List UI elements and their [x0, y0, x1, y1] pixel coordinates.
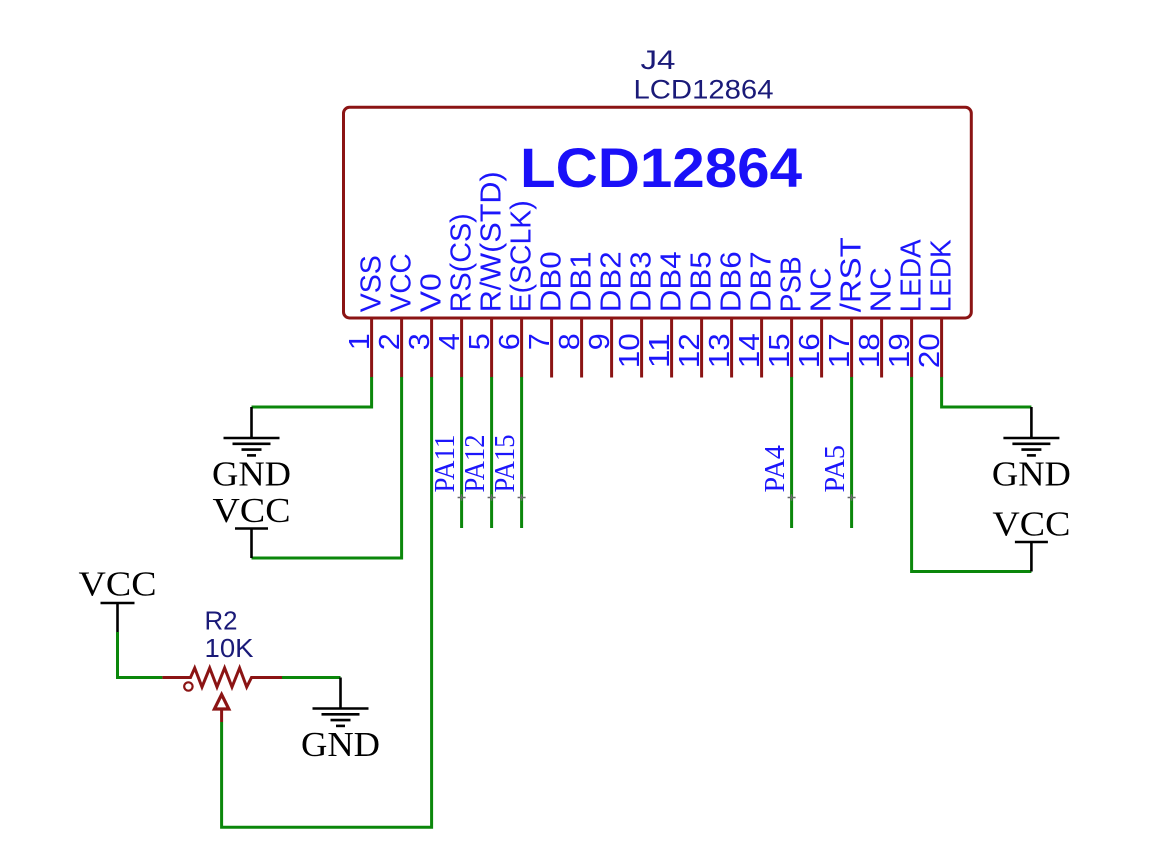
svg-text:17: 17	[824, 333, 856, 368]
svg-text:DB2: DB2	[596, 251, 628, 312]
pin 16 NC stub	[820, 318, 823, 378]
pin 5 R/W(STD) stub	[490, 318, 493, 378]
svg-text:PA15: PA15	[489, 435, 521, 493]
wire pin4 net PA11	[460, 377, 463, 528]
pin 2 VCC stub	[400, 318, 403, 378]
svg-text:PSB: PSB	[776, 256, 808, 312]
svg-text:DB6: DB6	[716, 251, 748, 312]
svg-text:VSS: VSS	[356, 255, 388, 312]
svg-text:DB5: DB5	[686, 251, 718, 312]
svg-text:11: 11	[644, 333, 676, 368]
wire VCC to R2 pin 1	[118, 632, 163, 678]
svg-text:R2: R2	[205, 606, 238, 636]
connector J4 body	[344, 107, 972, 318]
pin 9 DB2 stub	[610, 318, 613, 378]
wire pin17 net PA5	[850, 377, 853, 528]
svg-text:13: 13	[704, 333, 736, 368]
pin 7 DB0 stub	[550, 318, 553, 378]
svg-text:NC: NC	[866, 267, 898, 312]
R2 wiper arrow	[214, 695, 228, 710]
pin 15 PSB stub	[790, 318, 793, 378]
pin 17 /RST stub	[850, 318, 853, 378]
svg-text:PA5: PA5	[819, 445, 851, 493]
wire pin20 LEDK to GND	[942, 377, 1032, 407]
svg-text:VCC: VCC	[79, 565, 157, 604]
svg-text:PA11: PA11	[429, 435, 461, 493]
svg-text:14: 14	[734, 333, 766, 368]
pin 11 DB4 stub	[670, 318, 673, 378]
svg-text:18: 18	[854, 333, 886, 368]
svg-text:9: 9	[584, 333, 616, 350]
svg-text:15: 15	[764, 333, 796, 368]
svg-text:20: 20	[914, 333, 946, 368]
net anchor tick PA4	[788, 494, 796, 501]
svg-text:3: 3	[404, 333, 436, 350]
svg-text:16: 16	[794, 333, 826, 368]
svg-text:LCD12864: LCD12864	[520, 136, 802, 199]
pin 12 DB5 stub	[700, 318, 703, 378]
pin 1 VSS stub	[370, 318, 373, 378]
pin 14 DB7 stub	[760, 318, 763, 378]
svg-text:V0: V0	[416, 273, 448, 312]
wire R2 pin 2 to GND	[282, 676, 341, 679]
svg-text:NC: NC	[806, 267, 838, 312]
svg-text:/RST: /RST	[836, 237, 868, 312]
svg-text:PA4: PA4	[759, 445, 791, 493]
svg-text:E(SCLK): E(SCLK)	[506, 200, 538, 312]
svg-text:7: 7	[524, 333, 556, 350]
svg-text:GND: GND	[301, 725, 380, 764]
svg-text:10K: 10K	[205, 633, 255, 663]
power VCC right (pin 19)	[1030, 542, 1033, 572]
svg-text:LCD12864: LCD12864	[634, 75, 774, 105]
resistor R2 10K potentiometer	[162, 668, 282, 687]
svg-text:4: 4	[434, 333, 466, 350]
svg-text:VCC: VCC	[992, 505, 1070, 544]
svg-text:VCC: VCC	[213, 491, 291, 530]
net anchor tick PA12	[488, 494, 496, 501]
svg-text:LEDK: LEDK	[926, 239, 958, 312]
svg-text:DB7: DB7	[746, 251, 778, 312]
pin 3 V0 stub	[430, 318, 433, 378]
wire pin19 LEDA to VCC	[912, 377, 1032, 572]
pin 18 NC stub	[880, 318, 883, 378]
wire pin3 V0 to potentiometer wiper	[222, 377, 432, 827]
svg-text:J4: J4	[641, 45, 676, 75]
wire pin5 net PA12	[490, 377, 493, 528]
pin 13 DB6 stub	[730, 318, 733, 378]
ground GND right (pin 20)	[1030, 407, 1033, 438]
svg-text:5: 5	[464, 333, 496, 350]
pin 20 LEDK stub	[940, 318, 943, 378]
pin 19 LEDA stub	[910, 318, 913, 378]
svg-text:DB3: DB3	[626, 251, 658, 312]
svg-text:DB4: DB4	[656, 251, 688, 312]
svg-text:PA12: PA12	[459, 434, 491, 492]
ground GND left (pin 1)	[250, 407, 253, 438]
pin 6 E(SCLK) stub	[520, 318, 523, 378]
R2 pin 1 indicator circle	[184, 682, 192, 690]
wire pin6 net PA15	[520, 377, 523, 528]
svg-text:19: 19	[884, 333, 916, 368]
svg-text:2: 2	[374, 333, 406, 350]
ground GND at R2	[339, 678, 342, 709]
svg-text:6: 6	[494, 333, 526, 350]
svg-text:R/W(STD): R/W(STD)	[476, 171, 508, 312]
svg-text:DB1: DB1	[566, 251, 598, 312]
wire pin2 VCC to VCC symbol	[252, 377, 402, 558]
svg-text:DB0: DB0	[536, 251, 568, 312]
svg-text:1: 1	[344, 333, 376, 350]
svg-text:10: 10	[614, 333, 646, 368]
net anchor tick PA11	[458, 494, 466, 501]
pin 10 DB3 stub	[640, 318, 643, 378]
svg-text:GND: GND	[212, 455, 291, 494]
wire pin15 net PA4	[790, 377, 793, 528]
wire pin1 VSS to GND	[252, 377, 372, 407]
svg-text:VCC: VCC	[386, 253, 418, 312]
svg-text:RS(CS): RS(CS)	[446, 213, 478, 312]
svg-text:12: 12	[674, 333, 706, 368]
net anchor tick PA5	[848, 494, 856, 501]
pin 4 RS(CS) stub	[460, 318, 463, 378]
pin 8 DB1 stub	[580, 318, 583, 378]
svg-text:GND: GND	[992, 455, 1071, 494]
svg-text:8: 8	[554, 333, 586, 350]
net anchor tick PA15	[518, 494, 526, 501]
svg-text:LEDA: LEDA	[896, 239, 928, 312]
power VCC left (pin 2)	[250, 529, 253, 559]
